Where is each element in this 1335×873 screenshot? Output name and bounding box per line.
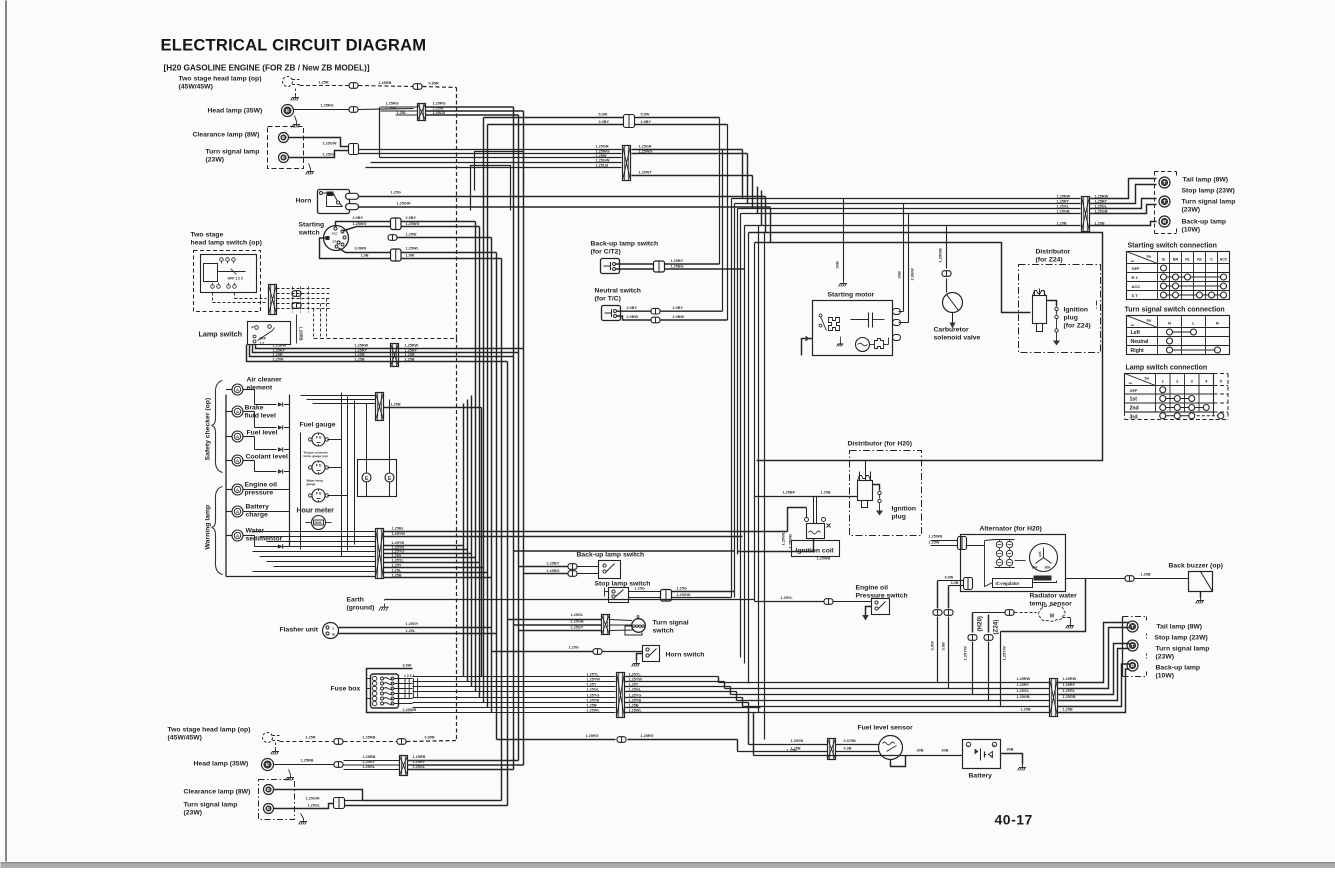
H20/Z24 option verticals [972,613,974,633]
svg-text:1.25W: 1.25W [433,107,444,111]
svg-text:(for Z24): (for Z24) [1064,323,1091,330]
battery feed line [753,713,755,756]
svg-text:ACC: ACC [1132,284,1141,289]
svg-text:Brake: Brake [245,405,264,412]
turn signal switch connection table [1127,316,1230,355]
svg-text:1.25B: 1.25B [392,574,402,578]
svg-text:(10W): (10W) [1182,227,1201,234]
clearance lamp bottom [264,785,274,795]
torque converter gauge symbol [312,461,325,474]
safety checker brace [212,381,223,473]
svg-text:1.25GW: 1.25GW [596,159,610,163]
hour meter symbol [312,516,326,530]
table2 right row [1170,349,1218,351]
stop lamp wires right [629,591,661,593]
carb valve ground [952,313,954,323]
fuse box output stubs [394,678,413,680]
svg-text:(23W): (23W) [184,810,203,817]
starting switch wires: top pair [336,222,391,228]
svg-text:ACC: ACC [332,232,338,236]
svg-text:30B: 30B [897,271,902,278]
distributor Z24 dash-dot box [1019,265,1101,353]
ground below head lamp bottom [289,770,291,775]
svg-text:1.25RW: 1.25RW [355,344,369,348]
fuse box outer C loop: 3.0W top and 1.25WB bottom [367,669,413,713]
svg-text:1.25YB: 1.25YB [392,541,405,545]
svg-text:1.25YL: 1.25YL [781,596,794,600]
svg-text:1.25B: 1.25B [1141,573,1151,577]
air cleaner element indicator [232,384,243,395]
clearance/turn lamp dashed box [268,127,304,169]
safety checker right bus [289,395,291,547]
svg-text:R 2: R 2 [1132,275,1139,280]
stop lamp switch box [609,588,629,603]
svg-text:(Z24): (Z24) [993,620,1000,635]
svg-text:0.375B: 0.375B [844,739,857,743]
svg-text:Battery: Battery [969,773,993,780]
turn signal lamp bottom [264,804,274,814]
carburetor solenoid valve drop [946,226,948,269]
clearance/turn dashed box bottom [259,780,295,820]
svg-text:1.25WL: 1.25WL [781,531,786,546]
svg-text:Radiator water: Radiator water [1030,593,1078,600]
svg-text:1.25WL: 1.25WL [587,708,601,712]
svg-text:element: element [247,385,273,392]
bottom tail lamp 1 [1127,621,1138,632]
svg-text:1.25YL: 1.25YL [392,559,405,563]
svg-text:30B: 30B [942,749,949,753]
motor ground inside [840,337,842,342]
svg-text:Clearance lamp (8W): Clearance lamp (8W) [193,132,260,139]
engine oil pressure indicator [232,484,243,495]
head lamp connector bar [418,104,426,121]
svg-text:1.25RY: 1.25RY [1063,683,1076,687]
svg-text:1.25YG: 1.25YG [392,550,405,554]
table1 row ST circles [1164,294,1224,296]
trunk B upper bend verticals [742,150,744,199]
svg-text:2.0BY: 2.0BY [641,120,652,124]
svg-text:Sw: Sw [1145,377,1150,381]
svg-text:0.3B: 0.3B [844,747,852,751]
head lamp bottom connector bar [400,756,408,776]
tail lamp top 1 [1159,177,1170,188]
svg-text:1.25RW: 1.25RW [1017,677,1031,681]
bottom right connector [1050,679,1058,717]
svg-text:1.25WG: 1.25WG [596,150,610,154]
svg-text:1.25GY: 1.25GY [406,622,419,626]
svg-text:1.25B: 1.25B [791,747,801,751]
H20 distributor feed wire [755,496,858,498]
wire 1.25W single connector [388,235,397,241]
dashed trunk vertical [456,88,458,339]
starting motor box [813,301,893,356]
svg-text:30B: 30B [1007,748,1014,752]
two stage head lamp symbol (dashed) [283,77,293,87]
connector [334,739,343,745]
svg-text:(for T/C): (for T/C) [595,296,621,303]
svg-text:3.0B: 3.0B [941,642,946,651]
svg-text:1.25GL: 1.25GL [629,687,642,691]
svg-text:1.25B: 1.25B [587,703,597,707]
svg-text:Safety checker (op): Safety checker (op) [205,398,212,461]
head lamp bottom wire [274,764,334,766]
wire pair 5.0W/2.0BY [484,117,624,119]
fuse box body [371,674,399,708]
alternator diode bridge [996,541,1002,547]
gauge rails vertical [300,433,302,550]
neutral switch wires right [617,310,651,312]
warning bus bottom run to connector [226,576,376,578]
ground below turn box [309,164,311,169]
connector [654,261,665,272]
alternator left connector [958,537,967,550]
turn signal lamp symbol [279,153,289,163]
svg-text:30A: 30A [1032,566,1039,570]
svg-text:1.25GY: 1.25GY [571,626,584,630]
svg-text:Coolant level: Coolant level [246,454,288,461]
svg-text:[H20 GASOLINE ENGINE (FOR ZB: [H20 GASOLINE ENGINE (FOR ZB / New ZB MO… [164,64,370,73]
svg-text:1.25GL: 1.25GL [1057,205,1070,209]
ignition coil wires up [813,497,815,518]
svg-text:1.25G: 1.25G [391,191,401,195]
svg-text:30A: 30A [1045,566,1052,570]
horn box [318,190,350,214]
svg-text:1.25YW: 1.25YW [392,532,406,536]
svg-text:plug: plug [892,514,906,521]
clearance bundle right bottom [345,800,363,802]
wires from switch to connector [212,293,214,303]
table1 row OFF circle [1161,265,1167,271]
distributor Z24 body [1033,296,1047,324]
carburetor solenoid valve symbol [943,293,963,313]
svg-text:ST: ST [333,240,337,244]
svg-text:Sw: Sw [1147,319,1152,323]
warning bundle right of connector [384,531,788,533]
back buzzer wire [1066,578,1125,580]
distributor Z24 wire in [1002,312,1033,314]
earth ground symbol [384,604,386,608]
clearance lamp symbol [279,133,289,143]
svg-text:2.0BW: 2.0BW [627,315,639,319]
svg-text:Neutral switch: Neutral switch [595,288,641,295]
svg-text:R: R [1216,321,1219,326]
svg-text:1.25RY: 1.25RY [363,760,376,764]
svg-text:1.25B: 1.25B [1063,708,1073,712]
lamp switch output bundle [256,345,263,349]
svg-text:E: E [282,155,285,160]
connector start pair2 [391,249,402,261]
connector [413,84,422,90]
water temp gauge symbol [312,489,325,502]
svg-text:1.25B: 1.25B [1021,708,1031,712]
svg-text:Distributor: Distributor [1036,249,1071,256]
wires connector to lamps [1090,179,1157,199]
svg-text:Fuel level: Fuel level [247,430,278,437]
alternator regulator box [993,579,1033,588]
svg-text:1.25GB: 1.25GB [1017,695,1030,699]
svg-text:1.25BY: 1.25BY [547,562,560,566]
svg-text:1.25YG: 1.25YG [629,693,642,697]
two stage switch connector bar [269,285,277,315]
svg-text:1.25YB: 1.25YB [587,698,600,702]
svg-text:Two stage: Two stage [191,232,224,239]
horn switch ground [637,654,643,661]
svg-text:(H20): (H20) [977,616,984,631]
svg-text:Horn: Horn [296,198,312,205]
table3 3rd row [1163,415,1192,417]
svg-text:1.25BG: 1.25BG [671,265,684,269]
starting switch bottom pair [339,248,391,253]
turn signal switch symbol [632,619,646,633]
svg-text:1.25GW: 1.25GW [677,593,691,597]
water sedimentor indicator [232,530,243,541]
svg-text:fluid level: fluid level [245,413,276,420]
dashed mesh right of connector [277,288,331,290]
coolant level indicator [232,455,243,466]
svg-text:(10W): (10W) [1156,673,1175,680]
svg-text:1.25W: 1.25W [406,233,417,237]
wire 1.25B right of gauges connector [384,407,482,409]
svg-text:W: W [1050,614,1055,620]
bundle lines right of connector [632,149,743,151]
svg-text:Alternator (for H20): Alternator (for H20) [980,526,1042,533]
svg-text:plug: plug [1064,315,1078,322]
svg-text:L: L [333,627,335,631]
connector [349,83,358,89]
svg-text:Ignition: Ignition [1064,307,1089,314]
svg-text:temp. gauge (op): temp. gauge (op) [304,454,328,458]
svg-text:5.0W: 5.0W [599,113,608,117]
svg-text:0.85R: 0.85R [425,736,435,740]
svg-text:Back-up lamp: Back-up lamp [1182,219,1227,226]
svg-text:1.25Y: 1.25Y [587,682,597,686]
svg-text:Fuel gauge: Fuel gauge [300,422,336,429]
svg-text:1.25G: 1.25G [635,587,645,591]
svg-text:1.25B: 1.25B [1057,222,1067,226]
head lamp symbol bottom [262,759,274,771]
svg-text:1.25RB: 1.25RB [413,755,426,759]
alternator left wires going left [924,540,926,542]
5-wire bundle to connector [380,157,622,159]
svg-text:1.25RG: 1.25RG [586,734,599,738]
alternator inner wires [985,541,993,587]
svg-text:Carburetor: Carburetor [934,327,969,334]
svg-text:Hour meter: Hour meter [297,508,335,515]
battery charge indicator [232,506,243,517]
svg-text:solenoid valve: solenoid valve [934,335,981,342]
battery box [963,740,1001,769]
svg-text:1.25W: 1.25W [596,154,607,158]
svg-text:1.25WL: 1.25WL [406,247,420,251]
svg-text:1.25Y: 1.25Y [392,554,402,558]
svg-text:Turn signal lamp: Turn signal lamp [1182,199,1236,206]
svg-text:Head lamp (35W): Head lamp (35W) [194,761,249,768]
table2 left row [1170,331,1194,333]
svg-text:T: T [1131,643,1134,648]
svg-text:Starting motor: Starting motor [828,292,875,299]
gauges top connector [376,393,384,421]
table2 neutral row [1167,338,1173,344]
bottom tail lamp 2 [1127,640,1138,651]
fuse box left input stubs [367,678,371,680]
svg-text:1.25WL: 1.25WL [629,708,643,712]
fuel sensor symbol [879,736,903,760]
svg-text:charge: charge [246,512,269,519]
svg-text:1.25WT: 1.25WT [639,171,653,175]
coil bottom wire [738,539,814,552]
svg-text:1.25WB: 1.25WB [938,248,943,263]
horn terminals [346,193,359,199]
svg-text:1.25GL: 1.25GL [1063,689,1076,693]
svg-text:1.25RW: 1.25RW [405,344,419,348]
svg-text:1.25GB: 1.25GB [1063,695,1076,699]
riser from clearance bundle [379,107,381,158]
ignition plug H20 [873,485,880,491]
alternator box [961,535,1066,592]
svg-text:Tail lamp (8W): Tail lamp (8W) [1183,177,1229,184]
svg-text:Lamp switch: Lamp switch [199,330,243,339]
svg-text:Turn signal: Turn signal [653,620,689,627]
back buzzer box [1189,572,1213,592]
tail lamp top 3 [1159,216,1170,227]
battery plates [975,749,979,755]
wire from distributor top to loop [865,461,867,470]
starting motor internals [819,314,822,317]
lamp switch box [248,322,291,345]
svg-text:1.25RY: 1.25RY [1017,683,1030,687]
trunk order-swap jogs [475,152,524,191]
svg-text:1st: 1st [1130,397,1138,403]
head lamp bottom bundle to trunk [408,760,519,762]
trunk A wire verticals [463,404,465,677]
tail lamp top connector [1082,197,1090,232]
svg-text:Turn signal switch connection: Turn signal switch connection [1125,307,1225,314]
svg-text:1.25RG: 1.25RG [641,734,654,738]
svg-text:1.25RB: 1.25RB [363,755,376,759]
brake fluid level indicator [232,406,243,417]
svg-text:E: E [282,135,285,140]
dashed wire bottom two-stage [280,741,334,743]
svg-text:(23W): (23W) [1182,207,1201,214]
svg-text:1.25RY: 1.25RY [273,349,286,353]
tail-lamp top bundle lines [732,198,1081,200]
warning lamp big connector [376,529,384,579]
svg-text:2.0BW: 2.0BW [673,315,685,319]
svg-text:Neutral: Neutral [1131,339,1149,345]
svg-text:1.25RW: 1.25RW [273,344,287,348]
tail lamp dashed frame top [1154,172,1156,234]
horn switch wire [492,651,593,653]
connector [334,762,343,768]
svg-text:1.25L: 1.25L [392,569,402,573]
svg-text:Fuse box: Fuse box [331,686,361,693]
svg-text:E: E [266,762,269,767]
svg-text:1.25Y: 1.25Y [392,564,402,568]
svg-text:1.25YB: 1.25YB [791,739,804,743]
table1 row ACC circles [1164,285,1224,287]
svg-text:1.25BG: 1.25BG [547,569,560,573]
svg-text:2.0BY: 2.0BY [406,216,417,220]
radiator sensor blob [1039,605,1066,621]
svg-text:1.25RW: 1.25RW [1057,195,1071,199]
two stage switch dashed box [194,251,261,312]
svg-text:1.25L: 1.25L [406,629,416,633]
svg-text:Clearance lamp (8W): Clearance lamp (8W) [184,789,251,796]
ignition coil symbol [807,524,825,539]
E-box with two earth circles [358,460,397,497]
svg-text:1.25B: 1.25B [355,358,365,362]
dashed risers to lamp-switch route [313,309,315,339]
svg-text:2.0BY: 2.0BY [627,306,638,310]
svg-text:E: E [267,806,270,811]
svg-text:Sw: Sw [1147,255,1152,259]
turn signal wires [508,619,602,621]
svg-text:2.0BY: 2.0BY [599,120,610,124]
svg-text:2.0BY: 2.0BY [673,306,684,310]
svg-text:1.25W: 1.25W [929,541,940,545]
svg-text:1.25G: 1.25G [569,646,579,650]
alternator wires from lower connector [964,578,973,590]
svg-text:5.0W: 5.0W [641,113,650,117]
svg-text:Lamp switch connection: Lamp switch connection [1126,365,1208,372]
alternator rotor circle [1030,544,1058,572]
svg-text:E: E [267,787,270,792]
switch internals [204,264,218,282]
svg-text:2nd: 2nd [1130,406,1139,412]
svg-text:1.25GB: 1.25GB [571,620,584,624]
svg-text:T: T [1163,180,1166,185]
svg-text:IC-regulator: IC-regulator [996,581,1020,586]
ignition coil label box [792,541,840,557]
svg-text:OFF: OFF [1132,266,1141,271]
starting motor terminals right [893,309,901,315]
svg-text:1.25R: 1.25R [273,353,283,357]
svg-text:(for Z24): (for Z24) [1036,257,1063,264]
backup switch box (C/T2) [601,259,620,274]
upper horizontal y544 [514,550,735,552]
svg-text:1.25YW: 1.25YW [587,677,601,681]
connector [397,739,406,745]
fuel level indicator [232,431,243,442]
svg-text:temp. sensor: temp. sensor [1030,601,1073,608]
svg-text:1.25RG: 1.25RG [386,102,399,106]
gauges 1.25B drop [481,408,483,677]
ground below turn bottom [301,814,304,819]
ignition plug Z24 symbols [1047,301,1057,307]
svg-text:Stop lamp (23W): Stop lamp (23W) [1182,188,1235,195]
svg-text:(23W): (23W) [206,157,225,164]
clearance wires to connector [289,138,349,147]
svg-text:Back buzzer (op): Back buzzer (op) [1169,563,1223,570]
svg-text:Starting: Starting [299,222,325,229]
svg-text:Engine oil: Engine oil [856,585,889,592]
svg-text:C: C [1210,258,1213,262]
lamp switch connection table [1125,374,1214,413]
svg-text:30B: 30B [835,261,840,268]
svg-text:1.25YW: 1.25YW [629,677,643,681]
horn switch box [643,646,660,662]
neutral switch box [602,306,621,321]
svg-text:Two stage head lamp (op): Two stage head lamp (op) [168,727,251,734]
svg-text:+: + [993,744,995,748]
battery right wire + ground [1001,754,1023,765]
C8 right side wires [625,676,719,678]
alternator dark label [1034,576,1052,581]
svg-text:1.25Y: 1.25Y [629,682,639,686]
main lower bundle 8 wires [413,676,616,678]
back buzzer ground [1200,592,1202,598]
svg-text:1.25YL: 1.25YL [587,672,600,676]
